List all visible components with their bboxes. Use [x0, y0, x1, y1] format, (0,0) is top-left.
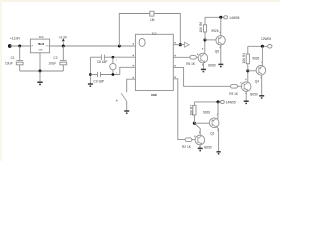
pin specks Q1	[217, 114, 219, 132]
svg-text:Q4: Q4	[255, 79, 259, 83]
ground Q5	[201, 69, 206, 71]
switch S1	[116, 93, 127, 101]
svg-text:R2 1K: R2 1K	[182, 145, 192, 149]
wire C1 lead	[19, 46, 21, 60]
svg-text:12W05: 12W05	[261, 37, 271, 41]
svg-text:10UF: 10UF	[5, 61, 13, 65]
label C2 10UF	[48, 56, 57, 66]
label Q4	[255, 79, 259, 83]
svg-text:10UF: 10UF	[48, 61, 56, 65]
label Q1	[210, 132, 214, 136]
junction node B1	[203, 38, 206, 41]
wire Q6 base	[205, 39, 216, 41]
svg-text:10K R4: 10K R4	[242, 53, 246, 64]
node XTAL1 junction	[112, 56, 115, 59]
wire IC pin to R5	[173, 56, 190, 58]
svg-text:9926: 9926	[252, 57, 259, 61]
wire R5 to Q5 base	[196, 56, 198, 58]
wire rail block2	[248, 45, 268, 47]
pin specks Q5	[197, 48, 203, 66]
wire cap C8 right lead to node XTAL1	[105, 56, 136, 58]
port flag 14W05b	[221, 100, 225, 103]
svg-text:C2: C2	[53, 56, 57, 60]
label R3 1K	[229, 92, 239, 96]
node +13.8V label	[10, 37, 21, 41]
label R2 1K	[182, 145, 192, 149]
pin-1 marker circle	[139, 38, 145, 46]
wire Q4 base	[248, 70, 256, 72]
label GND under IC	[151, 93, 157, 97]
wire switch to ground	[126, 102, 128, 111]
regulator IC3 box	[30, 35, 49, 53]
junction rail block1	[219, 16, 222, 19]
label IC2	[152, 31, 157, 35]
resistor R1 pullup box	[150, 11, 154, 16]
wire Q4 collector down	[261, 75, 263, 95]
capacitor C2	[60, 61, 67, 71]
wire Q6 emitter	[220, 17, 222, 36]
capacitor C1	[16, 61, 23, 71]
junction reset node	[179, 43, 182, 46]
label B050 for Q2	[204, 146, 212, 150]
transistor Q1 PNP	[209, 118, 219, 128]
label C8 18PF	[97, 60, 108, 64]
wire IC reset pin	[173, 44, 184, 46]
label 14W05b	[226, 100, 236, 104]
pin number specks right	[174, 42, 175, 78]
svg-text:Q1: Q1	[210, 132, 214, 136]
svg-text:B050: B050	[204, 146, 212, 150]
ground switch	[124, 111, 129, 113]
svg-text:GND: GND	[151, 93, 157, 97]
label 14W05	[229, 16, 239, 20]
ground Q4	[259, 96, 264, 98]
svg-text:GND: GND	[38, 49, 43, 51]
regulator pin names VI VO GND	[31, 45, 49, 51]
wire Q3 collector up	[247, 71, 249, 82]
wire IC pin4 to switch	[127, 79, 136, 92]
wire Q3 emitter down	[245, 91, 247, 100]
resistor R2 1K	[185, 138, 192, 142]
capacitor C8	[101, 55, 104, 60]
op IC2 microcontroller box	[135, 34, 173, 90]
svg-text:B050: B050	[250, 93, 258, 97]
pin specks Q3	[240, 79, 246, 95]
wire Q1 collector down	[216, 126, 219, 151]
wire crystal gnd rail	[89, 57, 91, 83]
wire cap C9 left lead	[90, 74, 97, 76]
node +3.3V label	[59, 36, 68, 40]
wire regulator gnd pin	[39, 53, 41, 71]
svg-text:78L33: 78L33	[38, 44, 45, 46]
pin specks Q4	[261, 62, 263, 79]
svg-text:R5 1K: R5 1K	[186, 62, 196, 66]
label R1 value	[150, 18, 155, 22]
supply arrow +3.3V	[62, 38, 65, 46]
label 10K R6 vertical	[199, 22, 203, 33]
label 12W05	[261, 37, 271, 41]
wire Q2 emitter down	[199, 145, 201, 148]
port flag 12W05	[268, 45, 272, 49]
svg-text:1M: 1M	[150, 18, 155, 22]
ground Q1	[217, 152, 221, 154]
label B050 for Q5	[208, 64, 216, 68]
wire Q4 emitter	[261, 46, 263, 65]
wire Q5 collector up	[204, 40, 206, 53]
label 9926 for Q6	[211, 29, 218, 33]
wire pullup to reset node	[154, 14, 180, 45]
port flag 14W05	[224, 16, 228, 19]
pin specks Q6	[220, 32, 221, 48]
wire XTAL2 jog to IC	[120, 67, 136, 74]
label 9926 for Q1	[203, 110, 210, 114]
terminal pad X1	[8, 44, 12, 48]
junction rail block2	[261, 45, 264, 48]
ground Q6	[218, 64, 223, 66]
pin specks Q2	[194, 132, 200, 148]
svg-text:IC2: IC2	[152, 31, 157, 35]
capacitor C9	[98, 72, 101, 77]
ground crystal caps	[88, 84, 93, 86]
crystal Q1	[110, 57, 118, 74]
regulator value text	[38, 44, 45, 46]
svg-text:9926: 9926	[211, 29, 218, 33]
junction node B4	[193, 122, 196, 125]
svg-text:IC3: IC3	[39, 35, 44, 39]
transistor Q5 NPN	[198, 53, 208, 63]
wire rail block1	[205, 16, 224, 18]
svg-text:Q6: Q6	[215, 50, 219, 54]
ground Q2	[198, 148, 203, 150]
label C9 18PF	[93, 79, 104, 83]
wire IC pin to R2	[173, 79, 185, 140]
label B050 for Q3	[250, 93, 258, 97]
svg-text:14W05: 14W05	[229, 16, 239, 20]
port arrow RESET	[185, 42, 190, 47]
label 9926 for Q4	[252, 57, 259, 61]
junction node B2	[246, 69, 249, 72]
wire input to regulator	[10, 45, 31, 47]
label 10K R4 vertical	[242, 53, 246, 64]
wire cap C8 left lead	[90, 56, 101, 58]
resistor R7 10K	[193, 102, 196, 123]
junction crystal gnd rail	[89, 73, 92, 76]
resistor R5 1K	[190, 56, 196, 60]
pin number specks left	[133, 43, 134, 78]
junction C2 tap	[62, 45, 65, 48]
junction ground bus	[39, 70, 42, 73]
wire C2 lead	[62, 46, 64, 60]
resistor R4 10K	[246, 46, 249, 71]
wire Q2 collector up	[194, 123, 200, 135]
wire Q1 base	[194, 122, 209, 124]
transistor Q6 PNP	[216, 36, 225, 45]
svg-text:C8 18P: C8 18P	[97, 60, 108, 64]
svg-text:R3 1K: R3 1K	[229, 92, 239, 96]
label C1 10UF	[5, 56, 15, 65]
junction XTAL2	[112, 73, 115, 76]
transistor Q4 PNP	[256, 66, 266, 76]
wire regulator output rail +3.3V to IC	[50, 45, 136, 47]
svg-text:9926: 9926	[203, 110, 210, 114]
svg-text:C1: C1	[11, 56, 15, 60]
svg-text:10K R6: 10K R6	[199, 22, 203, 33]
transistor Q2 NPN	[195, 135, 205, 145]
svg-text:+13.8V: +13.8V	[10, 37, 21, 41]
wire Q6 collector down	[220, 45, 222, 64]
resistor R6 10K	[203, 17, 206, 40]
label Q6	[215, 50, 219, 54]
svg-text:10K R7: 10K R7	[189, 105, 193, 116]
svg-text:VO: VO	[46, 45, 49, 47]
wire ground bus	[20, 70, 64, 72]
wire Q5 emitter down	[202, 63, 204, 69]
junction reset pullup tap	[118, 45, 121, 48]
svg-text:14W05: 14W05	[226, 100, 236, 104]
resistor R3 1K	[231, 85, 238, 89]
label 10K R7 vertical	[189, 105, 193, 116]
wire cap C9 to node XTAL2	[101, 74, 120, 76]
svg-text:B050: B050	[208, 64, 216, 68]
transistor Q3 NPN	[241, 82, 251, 92]
svg-text:C9 18P: C9 18P	[93, 79, 104, 83]
wire IC pin to R3	[173, 67, 230, 86]
label R5 1K	[186, 62, 196, 66]
junction C1 tap	[18, 45, 21, 48]
wire reset pullup loop	[119, 14, 150, 47]
junction rail block4	[216, 100, 219, 103]
wire R3 to Q3 base	[238, 85, 242, 87]
wire R2 to Q2 base	[192, 139, 196, 141]
ground Q3	[244, 101, 249, 103]
wire rail block4	[194, 101, 220, 103]
wire Q1 emitter	[216, 102, 218, 121]
ground regulator	[37, 71, 42, 84]
